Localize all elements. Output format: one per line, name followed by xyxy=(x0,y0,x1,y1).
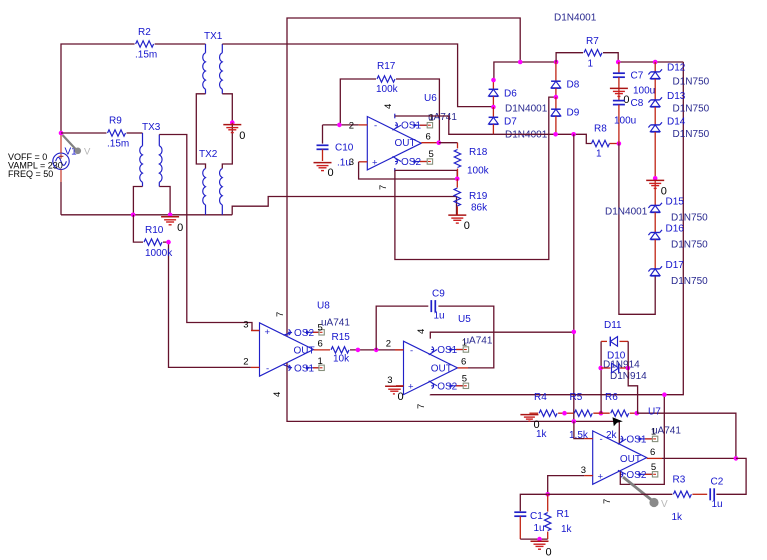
resistor R3 xyxy=(672,475,692,523)
label D6 D7 model xyxy=(505,103,548,114)
label U5 xyxy=(458,314,471,325)
wire C2 to R3 xyxy=(692,493,707,495)
svg-text:+: + xyxy=(372,158,378,169)
ground zener mid xyxy=(646,176,667,198)
svg-text:R19: R19 xyxy=(469,191,488,202)
node pin3 U7 xyxy=(545,492,550,497)
svg-text:OS2: OS2 xyxy=(626,470,646,481)
svg-text:4: 4 xyxy=(383,104,394,109)
svg-text:D1N4001: D1N4001 xyxy=(605,207,648,218)
diode D6 xyxy=(489,79,518,107)
svg-text:D7: D7 xyxy=(504,117,517,128)
wire U8 pin4 rail xyxy=(287,363,619,444)
svg-text:2k: 2k xyxy=(606,430,618,441)
zener D14 xyxy=(648,107,709,140)
ground C10 xyxy=(314,163,334,180)
svg-text:R3: R3 xyxy=(673,475,686,486)
diode D7 xyxy=(489,107,518,134)
node D10 right xyxy=(626,366,631,371)
svg-text:86k: 86k xyxy=(471,203,488,214)
node V1 top xyxy=(59,131,64,136)
wire V1 bottom rail xyxy=(61,214,232,216)
label U5 model xyxy=(464,336,493,347)
wire V minus column xyxy=(573,134,575,421)
svg-text:C10: C10 xyxy=(335,143,354,154)
wire TX3 right bottom xyxy=(159,187,170,215)
wire V1 to R9 to TX3 xyxy=(61,132,143,134)
svg-text:D15: D15 xyxy=(666,196,685,207)
svg-text:R15: R15 xyxy=(332,332,351,343)
svg-text:0: 0 xyxy=(328,167,334,179)
svg-text:OS1: OS1 xyxy=(437,345,457,356)
resistor R6 xyxy=(593,392,637,441)
node R4 R5 xyxy=(562,411,567,416)
transformer TX2 xyxy=(199,149,222,215)
zener D12 xyxy=(648,62,709,88)
svg-text:uA741: uA741 xyxy=(428,112,457,123)
svg-text:uA741: uA741 xyxy=(321,318,350,329)
wire bridge positive rail left xyxy=(494,62,556,79)
wire TX1-TX2 left link xyxy=(196,94,205,169)
svg-text:4: 4 xyxy=(416,329,427,334)
node Vminus a xyxy=(572,330,577,335)
svg-text:3: 3 xyxy=(243,320,248,331)
svg-text:R1: R1 xyxy=(557,509,570,520)
capacitor C9 xyxy=(376,288,494,368)
diode D9 xyxy=(551,97,580,134)
svg-text:C8: C8 xyxy=(631,98,644,109)
resistor R9 xyxy=(107,116,129,150)
op-amp U6 xyxy=(349,104,439,190)
diode D11 xyxy=(601,320,628,346)
svg-text:6: 6 xyxy=(318,338,323,349)
svg-text:3: 3 xyxy=(387,375,392,386)
svg-text:OUT: OUT xyxy=(395,138,416,149)
wire TX2 stair to ground xyxy=(232,197,456,215)
ground C1 R1 xyxy=(531,541,552,558)
node neg rail b xyxy=(571,132,576,137)
svg-text:C7: C7 xyxy=(631,71,644,82)
node R5 R6 xyxy=(599,411,604,416)
svg-text:R10: R10 xyxy=(145,225,164,236)
svg-text:OS2: OS2 xyxy=(401,157,421,168)
svg-text:0: 0 xyxy=(177,222,183,234)
node U7 out xyxy=(734,456,739,461)
diode D10 xyxy=(601,351,628,373)
svg-text:1: 1 xyxy=(596,149,602,160)
svg-text:OUT: OUT xyxy=(431,363,452,374)
label U6 xyxy=(424,93,437,104)
wire U6 pin4 to neg rail xyxy=(395,116,494,134)
svg-text:D1N4001: D1N4001 xyxy=(505,103,548,114)
svg-text:D13: D13 xyxy=(667,91,686,102)
svg-text:0: 0 xyxy=(239,130,245,142)
svg-text:R4: R4 xyxy=(534,392,547,403)
capacitor C2 xyxy=(710,477,724,511)
resistor R7 xyxy=(556,36,618,70)
label U7 model xyxy=(652,426,681,437)
resistor R19 xyxy=(454,179,488,216)
svg-text:1k: 1k xyxy=(561,524,573,535)
svg-text:100u: 100u xyxy=(614,116,636,127)
svg-text:OS1: OS1 xyxy=(626,434,646,445)
svg-text:D8: D8 xyxy=(567,79,580,90)
svg-text:-: - xyxy=(266,363,269,374)
resistor R1 xyxy=(545,494,573,539)
svg-text:D10: D10 xyxy=(607,351,626,362)
svg-text:6: 6 xyxy=(650,447,655,458)
svg-text:+: + xyxy=(265,327,271,338)
zener D16 xyxy=(648,212,708,250)
label D11 model xyxy=(610,371,647,382)
label D7 model xyxy=(505,130,548,141)
svg-text:D1N750: D1N750 xyxy=(671,276,708,287)
probe V1 xyxy=(63,135,92,158)
node cap rail b xyxy=(653,60,658,65)
svg-text:5: 5 xyxy=(651,462,656,473)
wire R6 to U7 out xyxy=(637,413,736,458)
svg-text:-: - xyxy=(374,121,377,132)
svg-text:1: 1 xyxy=(318,356,323,367)
node R15 a xyxy=(356,348,361,353)
svg-text:0: 0 xyxy=(398,391,404,403)
wire D loop left xyxy=(600,341,602,413)
svg-text:6: 6 xyxy=(426,132,431,143)
svg-text:5: 5 xyxy=(429,149,434,160)
svg-text:4: 4 xyxy=(272,392,283,397)
wire right outer loop xyxy=(664,62,683,395)
label V1 parameters xyxy=(8,152,63,179)
node R8 right xyxy=(617,141,622,146)
svg-text:5: 5 xyxy=(462,374,467,385)
svg-text:OUT: OUT xyxy=(294,345,315,356)
svg-text:3: 3 xyxy=(349,157,354,168)
svg-text:2: 2 xyxy=(243,356,248,367)
wire zener mid xyxy=(654,132,656,206)
svg-text:1000k: 1000k xyxy=(145,248,173,259)
svg-text:1u: 1u xyxy=(712,499,723,510)
probe U7 xyxy=(623,477,668,510)
svg-text:FREQ = 50: FREQ = 50 xyxy=(8,169,53,179)
svg-text:D17: D17 xyxy=(666,260,685,271)
svg-text:R17: R17 xyxy=(377,61,396,72)
svg-text:10k: 10k xyxy=(333,354,350,365)
svg-text:U8: U8 xyxy=(317,301,330,312)
svg-text:TX3: TX3 xyxy=(142,122,161,133)
op-amp U8 xyxy=(243,312,330,397)
node bridge rail a xyxy=(518,60,523,65)
svg-text:D1N750: D1N750 xyxy=(671,240,708,251)
wire TX3 right top to U8 pin3 xyxy=(159,135,259,331)
resistor R15 xyxy=(331,332,350,365)
svg-text:C1: C1 xyxy=(530,511,543,522)
svg-text:+: + xyxy=(598,472,604,483)
ground U5 pin3 xyxy=(385,386,404,403)
wire U7 pin3 node xyxy=(548,476,585,495)
resistor R5 xyxy=(569,392,592,441)
svg-text:U5: U5 xyxy=(458,314,471,325)
svg-text:OS2: OS2 xyxy=(294,328,314,339)
node TX3 bottom left xyxy=(131,213,136,218)
svg-text:D1N4001: D1N4001 xyxy=(505,130,548,141)
resistor R10 xyxy=(144,225,173,259)
svg-text:D1N750: D1N750 xyxy=(673,77,710,88)
svg-text:uA741: uA741 xyxy=(464,336,493,347)
ground C7 C8 xyxy=(610,77,630,106)
svg-text:6: 6 xyxy=(461,356,466,367)
svg-text:+: + xyxy=(408,381,414,392)
svg-text:-: - xyxy=(600,434,603,445)
svg-text:OS1: OS1 xyxy=(294,363,314,374)
wire U5 pin7 rail xyxy=(430,394,664,396)
ground R4 xyxy=(520,413,539,431)
resistor R2 xyxy=(135,27,157,61)
op-amp U5 xyxy=(386,329,469,409)
op-amp U7 xyxy=(581,427,662,504)
svg-text:OS2: OS2 xyxy=(437,381,457,392)
cursor arrow xyxy=(613,417,623,426)
svg-text:7: 7 xyxy=(416,404,427,409)
svg-text:R9: R9 xyxy=(109,116,122,127)
node U6 divider xyxy=(455,177,460,182)
svg-text:C9: C9 xyxy=(432,288,445,299)
svg-text:V: V xyxy=(661,499,668,510)
wire C1 R1 bottom xyxy=(520,538,547,540)
svg-text:1u: 1u xyxy=(434,310,445,321)
ground R19 xyxy=(448,215,470,232)
label U7 xyxy=(648,406,661,417)
node Vminus b xyxy=(572,419,577,424)
label U6 model xyxy=(428,112,457,123)
resistor R17 xyxy=(376,61,399,95)
svg-text:D6: D6 xyxy=(504,89,517,100)
wire U7 out xyxy=(662,457,736,459)
label U8 model xyxy=(321,318,350,329)
node D6 anode xyxy=(491,78,496,83)
svg-text:100k: 100k xyxy=(467,166,490,177)
zener D17 xyxy=(648,240,708,288)
svg-text:.15m: .15m xyxy=(107,139,129,150)
svg-text:7: 7 xyxy=(378,185,389,190)
svg-text:1.5k: 1.5k xyxy=(569,430,589,441)
resistor R18 xyxy=(439,143,490,179)
svg-text:TX1: TX1 xyxy=(204,31,223,42)
svg-text:1: 1 xyxy=(588,59,594,70)
svg-text:R18: R18 xyxy=(469,147,488,158)
wire D loop right xyxy=(628,341,637,413)
wire R17 feedback xyxy=(340,79,439,143)
svg-text:7: 7 xyxy=(602,499,613,504)
node D6 D7 mid xyxy=(491,105,496,110)
svg-text:0: 0 xyxy=(546,546,552,558)
svg-text:R8: R8 xyxy=(594,124,607,135)
node cap rail a xyxy=(616,60,621,65)
label bridge model top xyxy=(554,13,597,24)
svg-text:100u: 100u xyxy=(633,86,655,97)
wire C8 to zener bottom xyxy=(619,144,655,315)
svg-text:D1N750: D1N750 xyxy=(673,104,710,115)
node U6 pin2 xyxy=(337,123,342,128)
svg-text:OS1: OS1 xyxy=(401,121,421,132)
label U8 xyxy=(317,301,330,312)
svg-text:U7: U7 xyxy=(648,406,661,417)
node R6 right xyxy=(635,411,640,416)
svg-text:D11: D11 xyxy=(604,320,622,331)
node bridge rail b xyxy=(554,60,559,65)
wire R3 to pin3 xyxy=(548,493,673,495)
resistor R4 xyxy=(534,392,557,440)
ground main rail xyxy=(161,213,183,234)
node U6 out xyxy=(437,140,442,145)
capacitor C1 xyxy=(514,511,544,539)
svg-text:.15m: .15m xyxy=(135,50,157,61)
node rail U7 xyxy=(662,392,667,397)
zener D13 xyxy=(648,79,709,115)
wire U6 pin7 to D8 D9 mid xyxy=(395,97,556,259)
svg-text:100k: 100k xyxy=(376,84,399,95)
wire TX1-TX2 right link xyxy=(222,94,232,169)
voltage source V1 xyxy=(53,134,77,215)
wire V1 to R2 to TX1 xyxy=(61,44,206,134)
ground TX1 link xyxy=(223,120,245,142)
wire R15 to U5 xyxy=(350,349,404,351)
node R10 right xyxy=(166,240,171,245)
wire C1 branch xyxy=(520,494,547,511)
wire U7 pin2 from rail xyxy=(574,421,584,438)
node ground C1 R1 xyxy=(537,537,542,542)
svg-text:R6: R6 xyxy=(605,392,618,403)
wire R3 feedback xyxy=(716,458,746,494)
svg-text:TX2: TX2 xyxy=(199,149,218,160)
svg-text:2: 2 xyxy=(349,120,354,131)
wire top outer loop xyxy=(287,18,520,336)
svg-text:OUT: OUT xyxy=(620,454,641,465)
node D8 D9 mid xyxy=(554,95,559,100)
svg-text:3: 3 xyxy=(581,465,586,476)
wire TX1 right top to bridge xyxy=(222,44,493,107)
wire bridge positive rail right xyxy=(618,61,683,63)
label D10 model xyxy=(603,359,640,370)
node R15 b xyxy=(374,348,379,353)
wire U6 pin2 node xyxy=(323,124,359,126)
svg-text:2: 2 xyxy=(386,339,391,350)
svg-text:-: - xyxy=(410,345,413,356)
diode D8 xyxy=(551,62,580,97)
svg-text:D14: D14 xyxy=(667,116,686,127)
wire U6 pin3 to divider xyxy=(359,162,458,179)
svg-text:R7: R7 xyxy=(586,36,599,47)
transformer TX3 xyxy=(140,122,162,187)
svg-text:D16: D16 xyxy=(666,224,685,235)
svg-text:V: V xyxy=(84,147,91,158)
svg-text:R2: R2 xyxy=(138,27,151,38)
node neg rail a xyxy=(553,132,558,137)
zener D15 xyxy=(648,196,708,223)
svg-text:D1N4001: D1N4001 xyxy=(554,13,597,24)
capacitor C8 xyxy=(613,98,644,144)
svg-text:R5: R5 xyxy=(570,392,583,403)
svg-text:7: 7 xyxy=(275,312,286,317)
svg-text:D1N750: D1N750 xyxy=(671,213,708,224)
resistor R8 xyxy=(592,124,619,160)
svg-text:uA741: uA741 xyxy=(652,426,681,437)
label D1N4001 mid xyxy=(605,207,648,218)
svg-text:C2: C2 xyxy=(711,477,724,488)
svg-text:0: 0 xyxy=(464,220,470,232)
node D10 left xyxy=(598,366,603,371)
svg-text:D9: D9 xyxy=(567,107,580,118)
svg-text:1k: 1k xyxy=(672,512,684,523)
svg-text:D12: D12 xyxy=(667,63,686,74)
wire U5 pin4 xyxy=(430,332,574,338)
wire U7 pin7 loop xyxy=(620,395,664,485)
wire negative rail xyxy=(493,134,591,143)
wire TX3 left bottom xyxy=(133,187,142,215)
svg-text:1k: 1k xyxy=(536,429,548,440)
wire R4 R5 xyxy=(558,412,573,414)
wire R10 loop xyxy=(133,215,251,368)
capacitor C10 xyxy=(317,125,354,169)
capacitor C7 xyxy=(613,62,655,97)
svg-text:1u: 1u xyxy=(534,523,545,534)
svg-text:U6: U6 xyxy=(424,93,437,104)
transformer TX1 xyxy=(203,31,223,94)
svg-text:D1N750: D1N750 xyxy=(673,129,710,140)
